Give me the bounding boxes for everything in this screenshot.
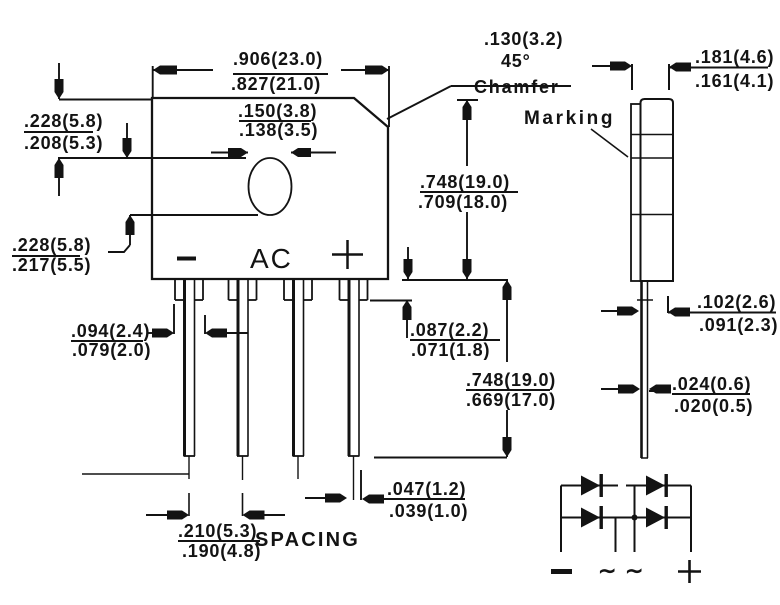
svg-text:.102(2.6): .102(2.6) <box>697 292 776 312</box>
dim left T1 arrows <box>58 63 60 99</box>
svg-text:.208(5.3): .208(5.3) <box>24 133 103 153</box>
dim side S2 .102(2.6)/.091(2.3) <box>601 310 624 312</box>
side view metal plate <box>631 104 641 281</box>
svg-text:.047(1.2): .047(1.2) <box>387 479 466 499</box>
svg-text:.709(18.0): .709(18.0) <box>418 192 508 212</box>
diode D4 <box>646 506 668 529</box>
AC node wire 2 <box>634 486 636 553</box>
dim side width S1 .181(4.6)/.161(4.1) <box>631 64 633 90</box>
marking label <box>524 108 615 129</box>
lead 4 <box>340 279 368 500</box>
svg-text:.827(21.0): .827(21.0) <box>231 74 321 94</box>
hole top extension line <box>58 157 246 159</box>
svg-text:Marking: Marking <box>524 108 615 129</box>
dim right R2 shoulder height <box>370 300 412 302</box>
side view molded body <box>641 99 674 281</box>
body bottom extension right <box>402 279 508 281</box>
lead end extension right <box>374 457 507 459</box>
dim lead spacing <box>146 514 178 516</box>
lead 1 <box>175 279 203 516</box>
chamfer note <box>474 29 563 97</box>
svg-text:∼: ∼ <box>598 558 616 583</box>
hole bottom extension line <box>130 214 258 216</box>
dim left T2 arrow with jog <box>129 215 131 245</box>
svg-text:.020(0.5): .020(0.5) <box>674 396 753 416</box>
diode D1 <box>581 474 603 497</box>
dim hole text .150(3.8)/.138(3.5) <box>238 101 318 140</box>
AC node wire 1 <box>615 518 617 553</box>
svg-text:SPACING: SPACING <box>255 529 360 551</box>
dim left T1 text .228(5.8)/.208(5.3) <box>24 111 103 153</box>
svg-text:.210(5.3): .210(5.3) <box>178 521 257 541</box>
svg-text:45°: 45° <box>501 51 531 71</box>
dim side S3 lead thickness .024(0.6)/.020(0.5) <box>601 388 624 390</box>
lead 3 <box>284 279 312 479</box>
svg-text:.190(4.8): .190(4.8) <box>182 541 261 561</box>
svg-text:.091(2.3): .091(2.3) <box>699 315 778 335</box>
lead 2 <box>229 279 257 516</box>
svg-text:Chamfer: Chamfer <box>474 77 560 97</box>
terminal minus <box>551 569 572 574</box>
svg-text:∼: ∼ <box>625 558 643 583</box>
svg-text:.161(4.1): .161(4.1) <box>695 71 774 91</box>
svg-text:.024(0.6): .024(0.6) <box>672 374 751 394</box>
dim left T2 text .228(5.8)/.217(5.5) <box>12 235 91 275</box>
positive rail wire <box>690 486 692 553</box>
terminal ~ 2 <box>625 558 643 583</box>
mounting hole <box>249 158 292 215</box>
dim top width extension brackets <box>152 66 154 98</box>
svg-text:.130(3.2): .130(3.2) <box>484 29 563 49</box>
dim lead1 width T3 text .094(2.4)/.079(2.0) <box>71 321 151 360</box>
svg-text:.748(19.0): .748(19.0) <box>466 370 556 390</box>
dim right R1 body height <box>466 99 468 166</box>
junction dot <box>632 515 638 521</box>
minus marking on body <box>177 257 196 261</box>
svg-text:.150(3.8): .150(3.8) <box>238 101 317 121</box>
lead end reference line bottom left <box>82 473 189 475</box>
front view body outline <box>152 98 388 279</box>
svg-text:.087(2.2): .087(2.2) <box>410 320 489 340</box>
dim top width text .906(23.0)/.827(21.0) <box>231 49 323 94</box>
marking leader <box>591 129 628 157</box>
dim lead1 width brackets and arrows <box>147 332 158 334</box>
dim hole width arrows <box>211 152 248 154</box>
svg-text:.217(5.5): .217(5.5) <box>12 255 91 275</box>
side view lead <box>640 281 643 458</box>
svg-text:.669(17.0): .669(17.0) <box>466 390 556 410</box>
diode D3 <box>581 506 603 529</box>
body top extension line left <box>59 99 152 101</box>
bridge schematic top rail <box>561 485 618 487</box>
svg-text:.039(1.0): .039(1.0) <box>389 501 468 521</box>
dim R4 lead tip width .047(1.2)/.039(1.0) <box>360 470 362 500</box>
svg-text:.228(5.8): .228(5.8) <box>24 111 103 131</box>
svg-text:.079(2.0): .079(2.0) <box>72 340 151 360</box>
side view marking band lines <box>631 134 673 136</box>
svg-text:.181(4.6): .181(4.6) <box>695 47 774 67</box>
svg-text:.228(5.8): .228(5.8) <box>12 235 91 255</box>
svg-text:.138(3.5): .138(3.5) <box>239 120 318 140</box>
svg-text:.906(23.0): .906(23.0) <box>233 49 323 69</box>
svg-text:.071(1.8): .071(1.8) <box>411 340 490 360</box>
svg-text:.748(19.0): .748(19.0) <box>420 172 510 192</box>
dim top width arrowheads <box>153 66 389 75</box>
terminal plus <box>678 570 701 573</box>
svg-text:AC: AC <box>250 243 293 274</box>
plus marking on body <box>332 253 363 256</box>
svg-text:.094(2.4): .094(2.4) <box>71 321 150 341</box>
terminal ~ 1 <box>598 558 616 583</box>
diode D2 <box>646 474 668 497</box>
negative rail wire <box>560 486 562 553</box>
dim right R3 lead length <box>506 280 508 362</box>
bridge schematic bottom rail <box>561 517 691 519</box>
